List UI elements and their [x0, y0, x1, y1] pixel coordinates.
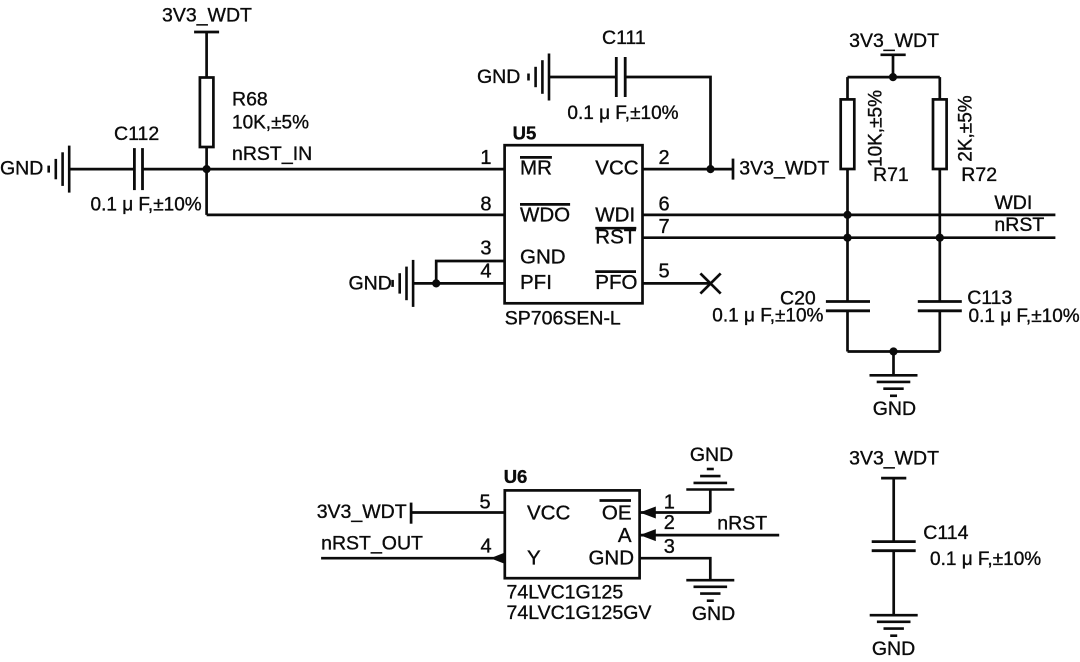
svg-text:R71: R71	[873, 164, 909, 186]
svg-text:U5: U5	[513, 122, 537, 143]
svg-text:5: 5	[479, 492, 490, 514]
svg-text:3: 3	[664, 536, 675, 558]
svg-text:C114: C114	[923, 522, 968, 544]
svg-text:GND: GND	[690, 444, 733, 466]
svg-text:0.1 μ F,±10%: 0.1 μ F,±10%	[91, 194, 202, 215]
svg-text:R72: R72	[961, 164, 997, 186]
svg-text:1: 1	[664, 492, 675, 514]
svg-text:74LVC1G125: 74LVC1G125	[507, 582, 624, 604]
svg-text:74LVC1G125GV: 74LVC1G125GV	[507, 602, 652, 624]
svg-text:10K,±5%: 10K,±5%	[232, 112, 309, 133]
svg-text:GND: GND	[477, 66, 520, 88]
svg-text:3V3_WDT: 3V3_WDT	[162, 5, 252, 27]
svg-text:1: 1	[480, 147, 491, 169]
svg-text:GND: GND	[520, 246, 566, 269]
svg-text:5: 5	[658, 260, 669, 282]
svg-text:3V3_WDT: 3V3_WDT	[739, 158, 829, 180]
svg-text:3V3_WDT: 3V3_WDT	[849, 448, 939, 470]
svg-text:0.1 μ F,±10%: 0.1 μ F,±10%	[930, 549, 1041, 570]
svg-text:nRST_OUT: nRST_OUT	[321, 532, 423, 554]
svg-text:WDO: WDO	[520, 203, 570, 226]
svg-text:OE: OE	[602, 501, 632, 524]
svg-text:7: 7	[658, 216, 669, 238]
svg-text:R68: R68	[232, 89, 268, 111]
svg-text:2: 2	[664, 512, 675, 534]
svg-text:GND: GND	[0, 157, 43, 179]
svg-text:nRST: nRST	[717, 512, 767, 534]
svg-text:10K,±5%: 10K,±5%	[866, 90, 887, 167]
svg-text:8: 8	[480, 193, 491, 215]
svg-text:2: 2	[658, 147, 669, 169]
svg-text:3V3_WDT: 3V3_WDT	[849, 30, 939, 52]
svg-text:nRST: nRST	[994, 214, 1044, 236]
svg-text:2K,±5%: 2K,±5%	[955, 95, 976, 162]
svg-text:WDI: WDI	[595, 203, 635, 226]
svg-text:3: 3	[480, 238, 491, 260]
svg-text:GND: GND	[349, 273, 392, 295]
svg-text:6: 6	[658, 193, 669, 215]
svg-text:nRST_IN: nRST_IN	[232, 143, 312, 165]
svg-text:GND: GND	[872, 638, 915, 660]
svg-text:0.1 μ F,±10%: 0.1 μ F,±10%	[969, 306, 1080, 327]
svg-text:MR: MR	[520, 156, 552, 179]
svg-text:PFI: PFI	[520, 271, 552, 294]
svg-text:0.1 μ F,±10%: 0.1 μ F,±10%	[567, 103, 678, 124]
svg-text:PFO: PFO	[595, 271, 637, 294]
svg-text:Y: Y	[527, 547, 541, 570]
svg-text:GND: GND	[873, 398, 916, 420]
svg-text:0.1 μ F,±10%: 0.1 μ F,±10%	[712, 306, 823, 327]
svg-text:VCC: VCC	[527, 501, 570, 524]
svg-text:VCC: VCC	[595, 156, 638, 179]
svg-text:C112: C112	[114, 123, 159, 145]
svg-text:A: A	[618, 524, 632, 547]
svg-text:4: 4	[480, 260, 491, 282]
svg-text:SP706SEN-L: SP706SEN-L	[505, 308, 621, 330]
svg-text:3V3_WDT: 3V3_WDT	[317, 501, 407, 523]
svg-text:U6: U6	[504, 466, 528, 487]
svg-text:4: 4	[480, 535, 491, 557]
svg-text:GND: GND	[588, 547, 634, 570]
svg-text:GND: GND	[692, 603, 735, 625]
svg-text:C111: C111	[602, 27, 646, 49]
svg-text:WDI: WDI	[994, 192, 1032, 214]
